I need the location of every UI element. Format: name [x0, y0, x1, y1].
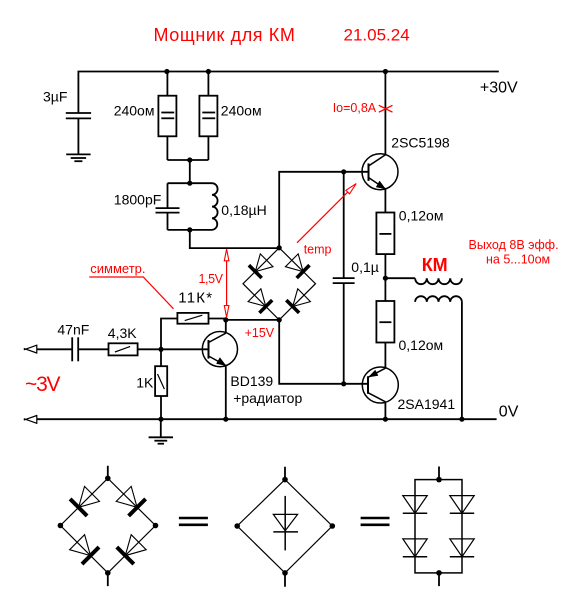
svg-text:+15V: +15V: [245, 326, 275, 340]
wire output node: [384, 254, 386, 301]
svg-text:11К*: 11К*: [178, 289, 213, 306]
wire +30V rail: [78, 72, 498, 114]
svg-text:temp: temp: [304, 243, 332, 257]
svg-text:BD139: BD139: [230, 373, 273, 389]
input arrow top: [24, 345, 37, 354]
resistor R 0,12ом bottom: [376, 301, 443, 353]
red X current mark: [379, 105, 393, 112]
svg-text:Выход 8В эфф.: Выход 8В эфф.: [469, 238, 559, 252]
wire cap to R 4,3K: [78, 348, 108, 350]
wire 3µF to ground: [77, 118, 79, 154]
equals sign 2: [361, 518, 390, 525]
ground under 3µF: [66, 154, 90, 161]
wire bridge bottom to 2SA1941 base: [279, 320, 368, 384]
svg-text:21.05.24: 21.05.24: [344, 26, 410, 45]
svg-text:2SA1941: 2SA1941: [398, 396, 456, 412]
inductor KM secondary: [415, 296, 462, 419]
svg-text:симметр.: симметр.: [90, 261, 145, 276]
diode D lower-right: [125, 535, 146, 556]
svg-text:240ом: 240ом: [114, 102, 155, 118]
wire input: [37, 348, 72, 350]
svg-text:240ом: 240ом: [221, 102, 262, 118]
svg-text:0,12ом: 0,12ом: [399, 337, 444, 353]
wire bridge top to base 2SC5198: [279, 172, 368, 248]
wire +15V node: [226, 319, 279, 321]
svg-text:0,18µH: 0,18µH: [221, 202, 266, 218]
red arrow temp: [297, 184, 356, 257]
wire R to node A: [138, 348, 161, 350]
diode D upper-right: [116, 486, 137, 507]
capacitor C 0,1µ: [333, 172, 379, 384]
svg-text:3µF: 3µF: [43, 89, 67, 105]
svg-text:1800pF: 1800pF: [114, 192, 161, 208]
resistor R 240ом right: [199, 72, 261, 161]
svg-text:0V: 0V: [499, 404, 519, 421]
callout симметр.: [89, 261, 173, 309]
wire emitter 2SC5198 to R: [384, 189, 386, 213]
svg-text:0,1µ: 0,1µ: [351, 259, 379, 275]
wire R to 2SA1941: [384, 343, 386, 369]
diode D3 lower-left: [248, 289, 272, 313]
resistor R 11K*: [161, 289, 226, 349]
capacitor C 47nF: [57, 321, 89, 361]
diode D inner: [273, 496, 298, 551]
bridge figure 3: [403, 467, 474, 587]
diode D4 lower-right: [286, 289, 310, 313]
equals sign 1: [179, 518, 208, 525]
svg-text:4,3K: 4,3K: [108, 325, 137, 341]
resistor R 0,12ом top: [376, 208, 443, 254]
node dots: [234, 477, 335, 576]
wire node A to BD139 base: [161, 348, 209, 350]
wire tank to bridge top: [190, 230, 279, 248]
diode D upper-left: [79, 486, 100, 507]
ground on 0V rail: [149, 419, 173, 444]
bridge figure 1: [58, 466, 159, 586]
input arrow bottom: [24, 415, 37, 424]
capacitor C 3µF: [43, 89, 91, 119]
diode D right bottom: [450, 539, 474, 557]
svg-text:~3V: ~3V: [25, 373, 61, 396]
diode D left bottom: [403, 539, 427, 557]
capacitor C 1800pF: [114, 183, 180, 230]
transistor Q BD139: [202, 320, 302, 419]
resistor R 4,3K: [108, 325, 138, 355]
diode D lower-left: [70, 535, 91, 556]
node dots: [436, 477, 442, 576]
wire resistor join: [167, 160, 208, 183]
diode D right top: [450, 496, 474, 514]
resistor R 1K: [136, 349, 167, 419]
diode D2 upper-right: [285, 254, 309, 278]
diode D1 upper-left: [249, 254, 273, 278]
diode bridge (circuit): [243, 248, 316, 320]
svg-text:1,5V: 1,5V: [199, 272, 224, 286]
resistor R 240ом left: [114, 72, 177, 161]
svg-text:2SC5198: 2SC5198: [391, 135, 450, 151]
svg-text:на 5...10ом: на 5...10ом: [486, 253, 550, 267]
svg-text:КМ: КМ: [422, 255, 448, 275]
inductor L 0,18µH: [168, 183, 267, 230]
svg-text:1K: 1K: [136, 375, 154, 391]
node dots: [58, 476, 159, 576]
svg-text:+радиатор: +радиатор: [233, 390, 302, 406]
svg-text:47nF: 47nF: [57, 321, 89, 337]
svg-text:Io=0,8A: Io=0,8A: [333, 101, 377, 115]
transistor Q 2SA1941: [362, 367, 455, 412]
wire 0V rail: [37, 418, 497, 420]
transistor Q 2SC5198: [362, 135, 450, 190]
diode D left top: [403, 496, 427, 514]
svg-text:Мощник для КМ: Мощник для КМ: [154, 25, 296, 45]
bridge figure 2: [234, 467, 335, 587]
wire collector 2SA1941 to 0V: [384, 402, 386, 419]
wire collector 2SC5198: [384, 72, 386, 155]
red arrow 1,5V: [199, 249, 229, 317]
svg-text:+30V: +30V: [480, 80, 518, 97]
svg-text:0,12ом: 0,12ом: [399, 208, 444, 224]
inductor KM primary: [385, 278, 462, 284]
